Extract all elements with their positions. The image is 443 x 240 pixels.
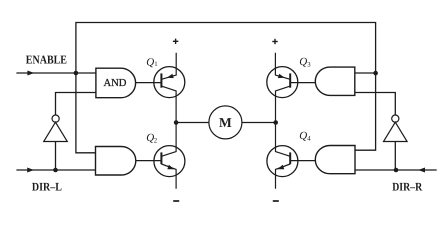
node DIR-L junction	[53, 168, 58, 173]
wire left inverter input	[55, 142, 57, 171]
motor M	[209, 106, 242, 139]
inverter left	[44, 115, 68, 142]
svg-text:M: M	[219, 115, 232, 130]
svg-text:1: 1	[154, 61, 157, 68]
node DIR-R junction	[394, 168, 399, 173]
node motor right junction	[273, 120, 278, 125]
transistor Q4 (NPN mirrored)	[267, 123, 298, 189]
wire motor left	[176, 122, 209, 124]
svg-text:Q: Q	[299, 130, 307, 142]
plus terminal left	[173, 39, 178, 44]
svg-text:ENABLE: ENABLE	[26, 53, 67, 67]
svg-text:2: 2	[154, 138, 158, 145]
node ENABLE junction	[74, 71, 79, 76]
wire gate U4 output / Q4 base lead	[290, 160, 315, 162]
AND gate U2 (lower left)	[96, 147, 136, 176]
wire left vertical to lower gate top input	[76, 73, 96, 153]
transistor Q2 (NPN)	[154, 123, 185, 189]
svg-text:3: 3	[307, 61, 311, 68]
wire DIR-L input	[16, 169, 95, 171]
minus terminal left	[173, 200, 179, 202]
node motor left junction	[174, 120, 179, 125]
wire left inverter output to upper-left gate	[56, 93, 96, 116]
svg-text:Q: Q	[299, 56, 307, 68]
svg-text:DIR–L: DIR–L	[32, 180, 62, 193]
svg-text:AND: AND	[104, 78, 127, 89]
DIR-R input arrow	[418, 168, 425, 173]
wire DIR-R input	[355, 169, 437, 171]
node right rail junction	[373, 71, 378, 76]
transistor Q1 (PNP)	[154, 53, 185, 123]
AND gate U1 (upper left, labelled AND)	[96, 68, 136, 98]
svg-text:Q: Q	[146, 57, 154, 69]
plus terminal right	[272, 39, 277, 44]
inverter right	[384, 115, 408, 142]
wire right inverter output to upper-right gate	[355, 93, 396, 116]
wire gate U3 output / Q3 base lead	[290, 82, 315, 84]
AND gate U4 (lower right, mirrored)	[315, 146, 355, 174]
wire ENABLE input	[16, 72, 96, 74]
wire gate U2 output / Q2 base lead	[136, 160, 162, 162]
ENABLE input arrow	[27, 71, 34, 76]
wire right inverter input	[394, 142, 396, 171]
transistor Q3 (PNP mirrored)	[267, 53, 298, 123]
wire motor right	[242, 122, 276, 124]
svg-text:4: 4	[307, 136, 311, 143]
AND gate U3 (upper right, mirrored)	[315, 67, 354, 95]
wire gate U1 output / Q1 base lead	[136, 82, 162, 84]
DIR-L input arrow	[27, 168, 34, 173]
wire right vertical to lower gate top input	[355, 73, 376, 150]
wire upper-right gate top input to node	[355, 72, 376, 74]
svg-text:DIR–R: DIR–R	[392, 180, 423, 193]
minus terminal right	[273, 200, 279, 202]
wire top rail	[76, 23, 376, 74]
